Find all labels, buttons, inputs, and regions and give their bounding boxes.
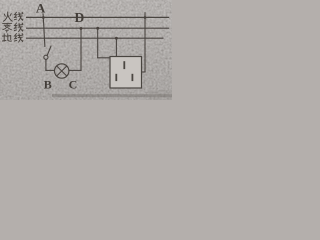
wire: switch to corner <box>45 59 47 70</box>
lamp (circle with X) <box>55 64 69 78</box>
label 火线 (live wire) <box>4 12 13 21</box>
wire: horizontal into socket left <box>97 57 110 59</box>
label 地线 (earth wire) <box>2 34 11 42</box>
wire: drop from live bus to switch <box>43 17 45 47</box>
wire: neutral drop to socket <box>97 28 99 58</box>
wire: lamp right to riser <box>69 69 82 71</box>
wire: stub above live bus (socket branch) <box>144 12 146 17</box>
wire: earth drop to socket top <box>115 38 117 57</box>
wire: riser up to neutral bus <box>80 28 82 70</box>
wire: stub above live bus at A <box>42 13 44 17</box>
junction dot on live bus (socket branch) <box>144 16 147 19</box>
socket right slot <box>132 74 134 81</box>
junction dot on earth bus <box>115 37 118 40</box>
paper background <box>0 0 172 100</box>
wire: neutral bus L2 <box>26 27 169 29</box>
label 零线 (neutral wire) <box>3 23 12 32</box>
svg-text:B: B <box>44 77 52 91</box>
scan shadow corner bottom-right <box>148 90 172 100</box>
wire: earth bus L3 <box>26 37 164 39</box>
wire: corner to lamp left <box>45 69 54 71</box>
socket X1 body <box>110 57 142 89</box>
junction dot on neutral bus (socket branch) <box>96 27 99 30</box>
junction dot on neutral bus at D <box>80 27 83 30</box>
wire: live bus L1 <box>26 16 169 18</box>
switch S pivot circle <box>44 55 48 59</box>
svg-text:A: A <box>36 1 46 16</box>
socket earth slot (top) <box>123 61 125 69</box>
wire: live drop along right side <box>144 17 146 72</box>
svg-text:C: C <box>69 77 78 91</box>
svg-text:D: D <box>75 10 85 25</box>
socket left slot <box>115 74 117 81</box>
wire: horizontal into socket right <box>141 71 145 73</box>
scan shadow band bottom <box>52 94 172 97</box>
junction dot on live bus at A <box>42 16 45 19</box>
switch S lever (open) <box>47 46 51 56</box>
